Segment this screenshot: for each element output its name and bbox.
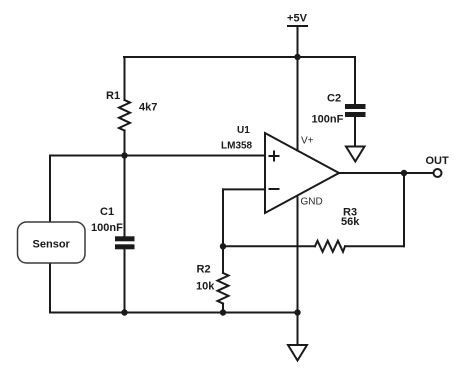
wire GND pin — [297, 198, 299, 346]
ground (below C2) — [346, 147, 365, 162]
svg-text:R1: R1 — [106, 90, 120, 102]
svg-text:C2: C2 — [327, 93, 341, 105]
svg-text:LM358: LM358 — [221, 141, 253, 152]
wire bottom rail — [50, 312, 298, 314]
svg-text:56k: 56k — [341, 216, 360, 228]
node +5V junction — [294, 54, 300, 60]
capacitor C1 — [115, 156, 135, 313]
wire feedback — [223, 245, 315, 247]
node feedback junction — [220, 243, 226, 249]
node ground junction — [294, 309, 300, 315]
node output junction — [401, 170, 407, 176]
svg-text:V+: V+ — [301, 136, 314, 147]
ground (bottom) — [288, 345, 307, 361]
terminal OUT — [434, 169, 442, 177]
svg-text:100nF: 100nF — [312, 114, 344, 126]
node R2 bottom junction — [220, 309, 226, 315]
wire V+ pin — [297, 57, 299, 151]
wire inverting input — [223, 189, 264, 273]
wire top rail — [124, 56, 355, 58]
resistor R3 — [315, 173, 404, 252]
svg-text:10k: 10k — [196, 281, 215, 293]
sensor SENS1 — [18, 222, 86, 263]
svg-text:R2: R2 — [197, 264, 211, 276]
svg-text:+5V: +5V — [287, 13, 308, 25]
node C1 bottom junction — [121, 309, 127, 315]
capacitor C2 — [345, 57, 366, 147]
resistor R2 — [218, 273, 229, 313]
svg-text:4k7: 4k7 — [139, 102, 157, 114]
svg-text:100nF: 100nF — [91, 222, 123, 234]
svg-text:GND: GND — [301, 197, 323, 208]
svg-text:U1: U1 — [237, 125, 250, 136]
svg-text:C1: C1 — [100, 206, 114, 218]
resistor R1 — [119, 57, 130, 156]
op-amp U1 — [265, 133, 339, 213]
power +5V — [288, 26, 307, 57]
wire noninverting input — [50, 155, 264, 157]
svg-text:OUT: OUT — [426, 155, 450, 167]
wire output — [339, 172, 434, 174]
svg-text:Sensor: Sensor — [33, 239, 71, 251]
node R1/C1 top junction — [121, 152, 127, 158]
wire sensor branch left — [49, 156, 51, 313]
